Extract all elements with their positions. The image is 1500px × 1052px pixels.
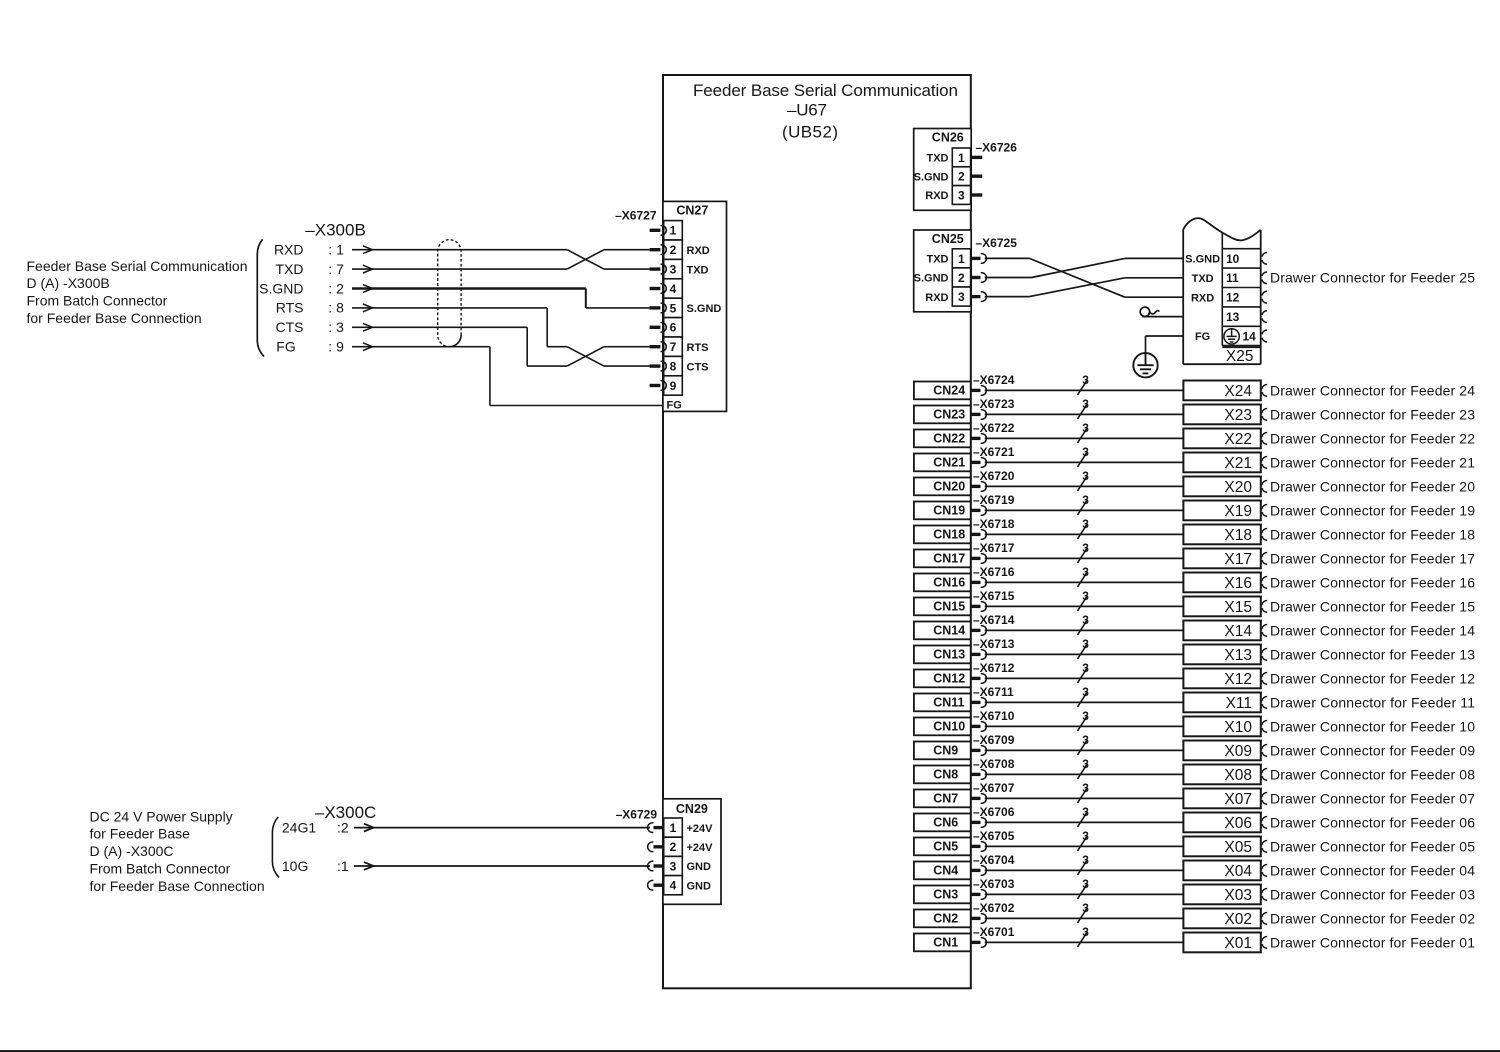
svg-text:FG: FG bbox=[1195, 331, 1210, 343]
svg-text:–X6701: –X6701 bbox=[973, 925, 1015, 939]
svg-text:X07: X07 bbox=[1224, 791, 1252, 808]
svg-text:: 1: : 1 bbox=[328, 242, 344, 258]
svg-text:S.GND: S.GND bbox=[259, 280, 303, 296]
svg-text:11: 11 bbox=[1226, 271, 1239, 285]
svg-text:–X6723: –X6723 bbox=[973, 397, 1015, 411]
svg-text:TXD: TXD bbox=[927, 153, 949, 165]
svg-text:3: 3 bbox=[1082, 445, 1089, 459]
svg-text:DC 24 V Power Supply: DC 24 V Power Supply bbox=[90, 808, 233, 824]
svg-text:–X6721: –X6721 bbox=[973, 445, 1015, 459]
svg-text:CN3: CN3 bbox=[933, 888, 958, 902]
svg-text:CN25: CN25 bbox=[932, 232, 964, 246]
svg-text:X25: X25 bbox=[1226, 348, 1254, 365]
svg-text:10G: 10G bbox=[282, 858, 308, 874]
svg-text:Drawer Connector for Feeder 05: Drawer Connector for Feeder 05 bbox=[1270, 838, 1475, 854]
svg-text:X17: X17 bbox=[1224, 551, 1252, 568]
svg-text:3: 3 bbox=[1082, 925, 1089, 939]
svg-text:3: 3 bbox=[1082, 565, 1089, 579]
svg-text:X22: X22 bbox=[1224, 431, 1252, 448]
svg-text:Drawer Connector for Feeder 22: Drawer Connector for Feeder 22 bbox=[1270, 430, 1475, 446]
svg-text:3: 3 bbox=[1082, 613, 1089, 627]
svg-text:Feeder Base Serial Communicati: Feeder Base Serial Communication bbox=[693, 81, 958, 100]
svg-text:–U67: –U67 bbox=[787, 100, 827, 119]
svg-text:3: 3 bbox=[670, 859, 677, 873]
svg-text:CN12: CN12 bbox=[933, 672, 965, 686]
svg-text:: 8: : 8 bbox=[328, 300, 344, 316]
svg-text:3: 3 bbox=[958, 188, 965, 202]
svg-text:X23: X23 bbox=[1224, 407, 1252, 424]
svg-text:X24: X24 bbox=[1224, 383, 1252, 400]
svg-text:3: 3 bbox=[1082, 541, 1089, 555]
svg-text:3: 3 bbox=[1082, 685, 1089, 699]
svg-text:CN23: CN23 bbox=[933, 408, 965, 422]
svg-text:2: 2 bbox=[958, 271, 965, 285]
svg-text:X15: X15 bbox=[1224, 599, 1252, 616]
svg-text:3: 3 bbox=[1082, 373, 1089, 387]
svg-text:–X6724: –X6724 bbox=[973, 373, 1015, 387]
svg-text:CN8: CN8 bbox=[933, 768, 958, 782]
svg-text:FG: FG bbox=[276, 339, 295, 355]
svg-text:Drawer Connector for Feeder 01: Drawer Connector for Feeder 01 bbox=[1270, 934, 1475, 950]
svg-text:CN9: CN9 bbox=[933, 744, 958, 758]
svg-text:RXD: RXD bbox=[925, 292, 948, 304]
svg-text:X21: X21 bbox=[1224, 455, 1252, 472]
svg-text:–X6722: –X6722 bbox=[973, 421, 1015, 435]
svg-text:Drawer Connector for Feeder 03: Drawer Connector for Feeder 03 bbox=[1270, 886, 1475, 902]
svg-text:2: 2 bbox=[670, 243, 677, 257]
svg-text:S.GND: S.GND bbox=[914, 171, 949, 183]
svg-text:–X6717: –X6717 bbox=[973, 541, 1015, 555]
svg-text:TXD: TXD bbox=[927, 254, 949, 266]
svg-text:Drawer Connector for Feeder 11: Drawer Connector for Feeder 11 bbox=[1270, 694, 1475, 710]
svg-text:–X6702: –X6702 bbox=[973, 901, 1015, 915]
svg-text:X10: X10 bbox=[1224, 719, 1252, 736]
svg-text:S.GND: S.GND bbox=[687, 303, 722, 315]
svg-text:X08: X08 bbox=[1224, 767, 1252, 784]
svg-text:GND: GND bbox=[687, 880, 712, 892]
svg-text:D (A) -X300C: D (A) -X300C bbox=[90, 843, 174, 859]
svg-text:–X6715: –X6715 bbox=[973, 589, 1015, 603]
svg-text:1: 1 bbox=[958, 252, 965, 266]
svg-text:10: 10 bbox=[1226, 252, 1240, 266]
svg-text:CN27: CN27 bbox=[676, 204, 708, 218]
svg-text:(UB52): (UB52) bbox=[782, 123, 838, 142]
svg-text:Drawer Connector for Feeder 07: Drawer Connector for Feeder 07 bbox=[1270, 790, 1475, 806]
svg-text:–X300B: –X300B bbox=[305, 220, 366, 239]
svg-text:3: 3 bbox=[1082, 421, 1089, 435]
svg-text:CN21: CN21 bbox=[933, 456, 965, 470]
svg-text:–X6704: –X6704 bbox=[973, 853, 1015, 867]
svg-text:Drawer Connector for Feeder 09: Drawer Connector for Feeder 09 bbox=[1270, 742, 1475, 758]
svg-text:–X300C: –X300C bbox=[315, 803, 376, 822]
svg-text:Drawer Connector for Feeder 14: Drawer Connector for Feeder 14 bbox=[1270, 622, 1475, 638]
svg-text:CTS: CTS bbox=[276, 319, 304, 335]
svg-text:3: 3 bbox=[670, 263, 677, 277]
svg-text:–X6713: –X6713 bbox=[973, 637, 1015, 651]
svg-text:D (A) -X300B: D (A) -X300B bbox=[27, 275, 110, 291]
svg-text:–X6719: –X6719 bbox=[973, 493, 1015, 507]
svg-text:From Batch Connector: From Batch Connector bbox=[27, 293, 168, 309]
svg-text:+24V: +24V bbox=[687, 842, 714, 854]
svg-text:CN6: CN6 bbox=[933, 816, 958, 830]
svg-text:CN13: CN13 bbox=[933, 648, 965, 662]
svg-text:–X6729: –X6729 bbox=[616, 807, 658, 821]
svg-text:14: 14 bbox=[1243, 329, 1257, 343]
svg-text:GND: GND bbox=[687, 861, 712, 873]
svg-text:Drawer Connector for Feeder 17: Drawer Connector for Feeder 17 bbox=[1270, 550, 1475, 566]
svg-text:CN17: CN17 bbox=[933, 552, 965, 566]
svg-text:3: 3 bbox=[1082, 469, 1089, 483]
svg-text:: 7: : 7 bbox=[328, 261, 344, 277]
svg-text:Drawer Connector for Feeder 12: Drawer Connector for Feeder 12 bbox=[1270, 670, 1475, 686]
svg-text:3: 3 bbox=[1082, 877, 1089, 891]
svg-text:FG: FG bbox=[667, 400, 682, 412]
svg-text:6: 6 bbox=[670, 321, 677, 335]
svg-text:Drawer Connector for Feeder 20: Drawer Connector for Feeder 20 bbox=[1270, 478, 1475, 494]
svg-text:CN22: CN22 bbox=[933, 432, 965, 446]
svg-text:Drawer Connector for Feeder 23: Drawer Connector for Feeder 23 bbox=[1270, 406, 1475, 422]
svg-text:2: 2 bbox=[670, 840, 677, 854]
svg-text:RXD: RXD bbox=[687, 245, 710, 257]
svg-text:CN7: CN7 bbox=[933, 792, 958, 806]
svg-text:Drawer Connector for Feeder 06: Drawer Connector for Feeder 06 bbox=[1270, 814, 1475, 830]
svg-text:4: 4 bbox=[670, 879, 677, 893]
svg-text:X06: X06 bbox=[1224, 815, 1252, 832]
svg-text:–X6710: –X6710 bbox=[973, 709, 1015, 723]
svg-text:3: 3 bbox=[1082, 493, 1089, 507]
svg-text:CN29: CN29 bbox=[676, 802, 708, 816]
svg-text:: 2: : 2 bbox=[328, 280, 344, 296]
svg-text:TXD: TXD bbox=[687, 264, 709, 276]
svg-text:Drawer Connector for Feeder 13: Drawer Connector for Feeder 13 bbox=[1270, 646, 1475, 662]
svg-text:5: 5 bbox=[670, 301, 677, 315]
svg-text:–X6727: –X6727 bbox=[615, 209, 657, 223]
svg-text:CN11: CN11 bbox=[933, 696, 964, 710]
svg-text:X19: X19 bbox=[1224, 503, 1252, 520]
svg-text:–X6726: –X6726 bbox=[976, 140, 1018, 154]
svg-text:–X6708: –X6708 bbox=[973, 757, 1015, 771]
svg-text:CN18: CN18 bbox=[933, 528, 965, 542]
svg-text:Drawer Connector for Feeder 18: Drawer Connector for Feeder 18 bbox=[1270, 526, 1475, 542]
svg-text:Drawer Connector for Feeder 25: Drawer Connector for Feeder 25 bbox=[1270, 270, 1475, 286]
svg-text:Drawer Connector for Feeder 08: Drawer Connector for Feeder 08 bbox=[1270, 766, 1475, 782]
svg-text:CN16: CN16 bbox=[933, 576, 965, 590]
svg-text:–X6720: –X6720 bbox=[973, 469, 1015, 483]
svg-text:3: 3 bbox=[1082, 397, 1089, 411]
svg-text:3: 3 bbox=[1082, 637, 1089, 651]
svg-text:RTS: RTS bbox=[687, 342, 709, 354]
svg-text:3: 3 bbox=[1082, 805, 1089, 819]
svg-text:Drawer Connector for Feeder 02: Drawer Connector for Feeder 02 bbox=[1270, 910, 1475, 926]
svg-text:–X6706: –X6706 bbox=[973, 805, 1015, 819]
svg-text:TXD: TXD bbox=[1192, 273, 1214, 285]
svg-text:3: 3 bbox=[958, 290, 965, 304]
svg-text:CN19: CN19 bbox=[933, 504, 965, 518]
svg-text:–X6725: –X6725 bbox=[976, 236, 1018, 250]
svg-text:for Feeder Base Connection: for Feeder Base Connection bbox=[90, 878, 265, 894]
svg-text:1: 1 bbox=[958, 151, 965, 165]
svg-text:Drawer Connector for Feeder 16: Drawer Connector for Feeder 16 bbox=[1270, 574, 1475, 590]
svg-text:–X6705: –X6705 bbox=[973, 829, 1015, 843]
svg-text:1: 1 bbox=[670, 224, 677, 238]
svg-text:Drawer Connector for Feeder 10: Drawer Connector for Feeder 10 bbox=[1270, 718, 1475, 734]
svg-text:–X6707: –X6707 bbox=[973, 781, 1015, 795]
svg-text:CN4: CN4 bbox=[933, 864, 958, 878]
svg-text:CN10: CN10 bbox=[933, 720, 965, 734]
svg-text:CN1: CN1 bbox=[933, 936, 958, 950]
svg-text:–X6703: –X6703 bbox=[973, 877, 1015, 891]
svg-text:3: 3 bbox=[1082, 781, 1089, 795]
svg-text:24G1: 24G1 bbox=[282, 819, 316, 835]
svg-text:CN5: CN5 bbox=[933, 840, 958, 854]
svg-text:–X6714: –X6714 bbox=[973, 613, 1015, 627]
svg-text:RXD: RXD bbox=[1191, 292, 1214, 304]
svg-text:3: 3 bbox=[1082, 517, 1089, 531]
svg-text:13: 13 bbox=[1226, 310, 1240, 324]
svg-text:3: 3 bbox=[1082, 757, 1089, 771]
svg-text:CN24: CN24 bbox=[933, 384, 965, 398]
svg-text:CN14: CN14 bbox=[933, 624, 965, 638]
svg-text:–X6711: –X6711 bbox=[973, 685, 1014, 699]
svg-text:X12: X12 bbox=[1224, 671, 1252, 688]
svg-text:–X6718: –X6718 bbox=[973, 517, 1015, 531]
svg-text:3: 3 bbox=[1082, 829, 1089, 843]
svg-text::1: :1 bbox=[337, 858, 349, 874]
svg-text:7: 7 bbox=[670, 340, 677, 354]
svg-text:S.GND: S.GND bbox=[914, 273, 949, 285]
svg-text:–X6712: –X6712 bbox=[973, 661, 1015, 675]
svg-text:X13: X13 bbox=[1224, 647, 1252, 664]
svg-text:for Feeder Base: for Feeder Base bbox=[90, 826, 191, 842]
svg-text:Feeder Base Serial Communicati: Feeder Base Serial Communication bbox=[27, 258, 248, 274]
svg-text:9: 9 bbox=[670, 379, 677, 393]
svg-text:From Batch Connector: From Batch Connector bbox=[90, 861, 231, 877]
svg-text:CN20: CN20 bbox=[933, 480, 965, 494]
svg-text:3: 3 bbox=[1082, 853, 1089, 867]
svg-text:3: 3 bbox=[1082, 733, 1089, 747]
svg-text:X14: X14 bbox=[1224, 623, 1252, 640]
svg-text:Drawer Connector for Feeder 21: Drawer Connector for Feeder 21 bbox=[1270, 454, 1475, 470]
svg-text:RXD: RXD bbox=[925, 190, 948, 202]
svg-text:2: 2 bbox=[958, 170, 965, 184]
svg-text:for Feeder Base Connection: for Feeder Base Connection bbox=[27, 310, 202, 326]
svg-text:CN15: CN15 bbox=[933, 600, 965, 614]
svg-text:X02: X02 bbox=[1224, 911, 1252, 928]
svg-text:RXD: RXD bbox=[274, 242, 304, 258]
svg-text:X18: X18 bbox=[1224, 527, 1252, 544]
svg-text:X01: X01 bbox=[1224, 935, 1252, 952]
svg-text:Drawer Connector for Feeder 04: Drawer Connector for Feeder 04 bbox=[1270, 862, 1475, 878]
svg-text:Drawer Connector for Feeder 19: Drawer Connector for Feeder 19 bbox=[1270, 502, 1475, 518]
svg-text:3: 3 bbox=[1082, 589, 1089, 603]
svg-text:Drawer Connector for Feeder 24: Drawer Connector for Feeder 24 bbox=[1270, 382, 1475, 398]
svg-text:: 3: : 3 bbox=[328, 319, 344, 335]
svg-text:X09: X09 bbox=[1224, 743, 1252, 760]
svg-text:3: 3 bbox=[1082, 709, 1089, 723]
svg-text:4: 4 bbox=[670, 282, 677, 296]
svg-text:3: 3 bbox=[1082, 901, 1089, 915]
svg-text:X20: X20 bbox=[1224, 479, 1252, 496]
svg-text:RTS: RTS bbox=[276, 300, 304, 316]
svg-text:X11: X11 bbox=[1226, 695, 1252, 712]
svg-text:+24V: +24V bbox=[687, 823, 714, 835]
svg-text:Drawer Connector for Feeder 15: Drawer Connector for Feeder 15 bbox=[1270, 598, 1475, 614]
svg-text:X04: X04 bbox=[1224, 863, 1252, 880]
svg-text:3: 3 bbox=[1082, 661, 1089, 675]
svg-text:CN2: CN2 bbox=[933, 912, 958, 926]
svg-text:X05: X05 bbox=[1224, 839, 1252, 856]
svg-text:1: 1 bbox=[670, 821, 677, 835]
svg-text:: 9: : 9 bbox=[328, 339, 344, 355]
svg-text:TXD: TXD bbox=[276, 261, 304, 277]
svg-text:8: 8 bbox=[670, 360, 677, 374]
svg-text:–X6716: –X6716 bbox=[973, 565, 1015, 579]
svg-text:–X6709: –X6709 bbox=[973, 733, 1015, 747]
svg-text:12: 12 bbox=[1226, 291, 1240, 305]
svg-text:CTS: CTS bbox=[687, 361, 709, 373]
svg-text:X16: X16 bbox=[1224, 575, 1252, 592]
svg-text:CN26: CN26 bbox=[932, 131, 964, 145]
svg-text:X03: X03 bbox=[1224, 887, 1252, 904]
svg-text:S.GND: S.GND bbox=[1185, 254, 1220, 266]
